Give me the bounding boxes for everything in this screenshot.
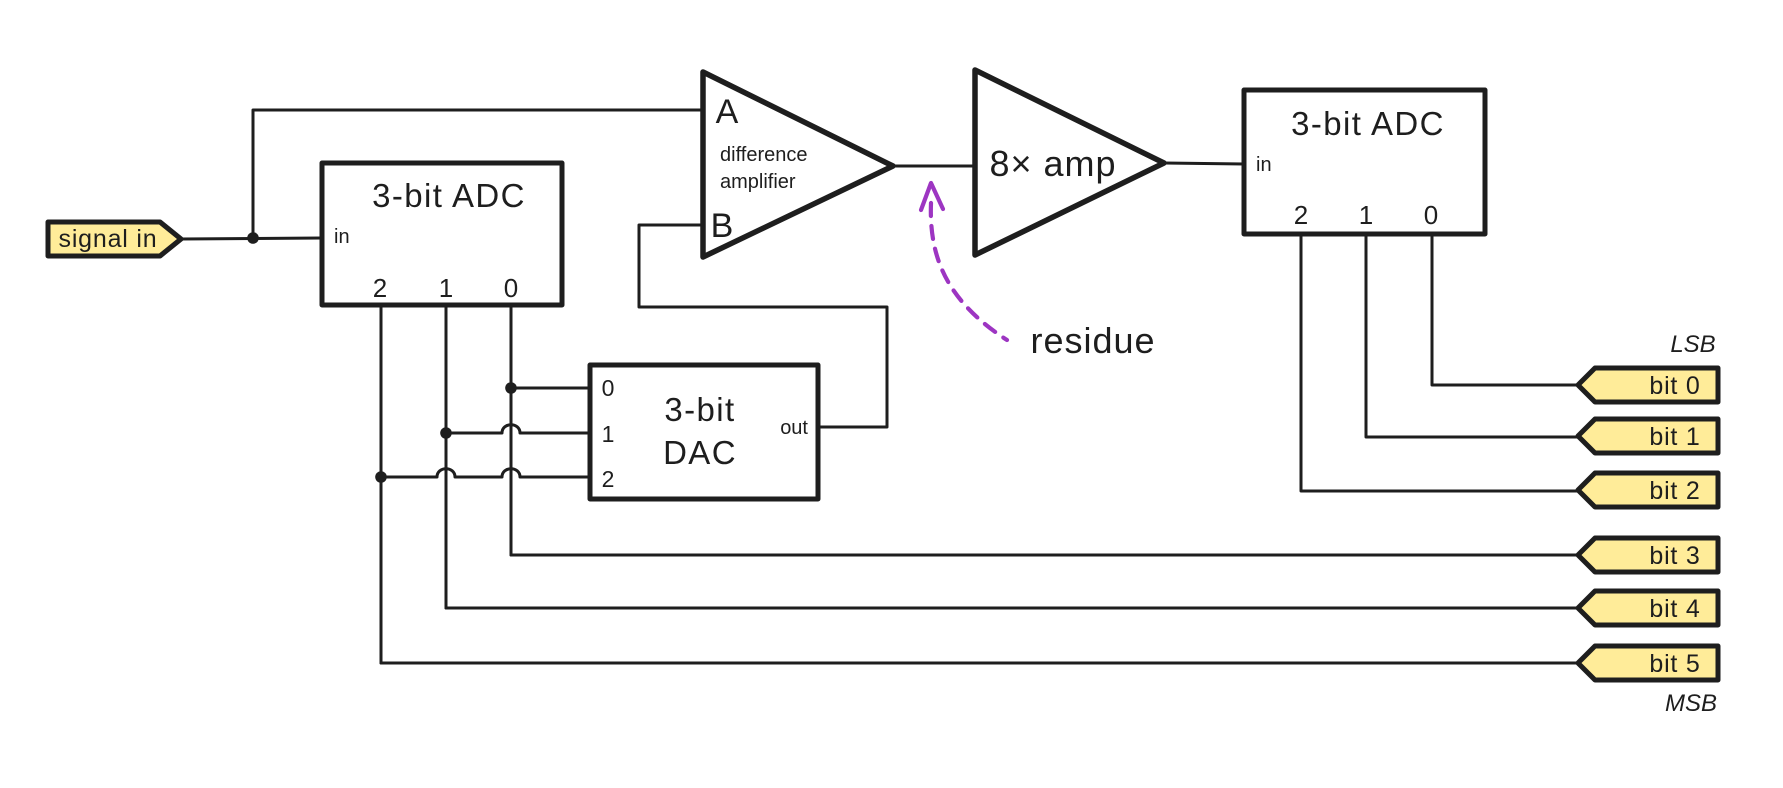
block U1: first 3-bit ADC xyxy=(322,163,562,305)
svg-text:out: out xyxy=(780,417,808,439)
svg-text:LSB: LSB xyxy=(1670,331,1715,358)
svg-text:MSB: MSB xyxy=(1665,690,1717,717)
svg-text:bit 5: bit 5 xyxy=(1649,650,1700,678)
svg-text:bit 4: bit 4 xyxy=(1649,595,1700,623)
op-amp U3: difference amplifier xyxy=(703,72,893,257)
svg-text:bit 2: bit 2 xyxy=(1649,477,1700,505)
wire: ADC2 bit2 to bit 2 tag xyxy=(1301,234,1578,491)
node: junction on bit0 line xyxy=(505,382,517,394)
svg-text:1: 1 xyxy=(1359,200,1373,230)
svg-text:8× amp: 8× amp xyxy=(989,143,1116,184)
svg-text:amplifier: amplifier xyxy=(720,171,796,193)
wire: signal in to ADC1 input xyxy=(181,238,322,239)
svg-text:3-bit: 3-bit xyxy=(664,391,735,428)
svg-text:A: A xyxy=(716,93,739,131)
wire: ADC1 bit1 vertical down xyxy=(445,305,448,608)
terminal tag: bit 1 xyxy=(1578,419,1718,453)
wire: bit3 run to output tag xyxy=(511,554,1578,557)
op-amp U4: 8x amplifier xyxy=(975,70,1164,255)
wire: bit5 run to output tag xyxy=(381,662,1578,665)
wire: ADC2 bit0 to bit 0 tag xyxy=(1432,234,1578,385)
svg-text:difference: difference xyxy=(720,144,807,166)
annotation arrow: residue (dashed purple) xyxy=(921,183,1007,340)
wire: 8x amp output to ADC2 input xyxy=(1164,163,1244,164)
svg-text:B: B xyxy=(711,207,734,245)
svg-text:3-bit ADC: 3-bit ADC xyxy=(1291,105,1445,142)
terminal tag: bit 2 xyxy=(1578,473,1718,507)
svg-text:DAC: DAC xyxy=(663,434,737,471)
wire: ADC1 bit1 across to DAC pin1 (with crossover hop) xyxy=(446,425,590,433)
terminal tag: bit 0 xyxy=(1578,368,1718,402)
svg-text:0: 0 xyxy=(504,273,518,303)
wire: difference amplifier output to 8x amp input xyxy=(893,165,975,168)
svg-text:signal in: signal in xyxy=(59,225,158,253)
svg-text:bit 3: bit 3 xyxy=(1649,542,1700,570)
svg-text:0: 0 xyxy=(602,375,615,401)
terminal tag: signal in xyxy=(48,222,181,256)
wire: ADC1 bit0 across to DAC pin0 xyxy=(511,387,590,390)
node: junction on bit1 line xyxy=(440,427,452,439)
svg-text:3-bit ADC: 3-bit ADC xyxy=(372,177,526,214)
svg-text:residue: residue xyxy=(1030,320,1155,361)
wire: bit4 run to output tag xyxy=(446,607,1578,610)
wire: junction up and across to difference amplifier input A xyxy=(253,110,704,238)
label: MSB xyxy=(1665,690,1717,717)
label: residue xyxy=(1030,320,1155,361)
terminal tag: bit 4 xyxy=(1578,591,1718,625)
svg-text:1: 1 xyxy=(439,273,453,303)
block U2: 3-bit DAC xyxy=(590,365,818,499)
node: junction on bit2 line xyxy=(375,471,387,483)
svg-text:1: 1 xyxy=(602,421,615,447)
wire: DAC output feedback to difference amplifier input B xyxy=(639,225,887,427)
label: LSB xyxy=(1670,331,1715,358)
svg-text:2: 2 xyxy=(1294,200,1308,230)
wire: ADC1 bit2 vertical down xyxy=(380,305,383,663)
wire: ADC1 bit2 across to DAC pin2 (with crossover hops) xyxy=(381,469,590,477)
svg-text:bit 1: bit 1 xyxy=(1649,423,1700,451)
svg-text:0: 0 xyxy=(1424,200,1438,230)
node: signal junction xyxy=(247,232,259,244)
terminal tag: bit 3 xyxy=(1578,538,1718,572)
svg-text:2: 2 xyxy=(602,466,615,492)
block U5: second 3-bit ADC xyxy=(1244,90,1485,234)
wire: ADC1 bit0 vertical down xyxy=(510,305,513,555)
svg-text:bit 0: bit 0 xyxy=(1649,372,1700,400)
svg-text:in: in xyxy=(334,226,350,248)
terminal tag: bit 5 xyxy=(1578,646,1718,680)
wire: ADC2 bit1 to bit 1 tag xyxy=(1366,234,1578,437)
svg-text:in: in xyxy=(1256,154,1272,176)
svg-text:2: 2 xyxy=(373,273,387,303)
